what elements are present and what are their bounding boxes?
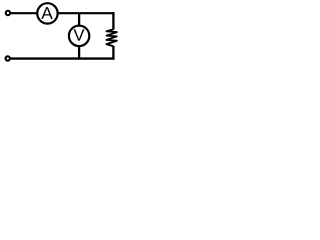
resistor R1 (zigzag) [107,29,117,46]
wire (right side: resistor down to bottom-right corner) [112,46,114,60]
wire (voltmeter bottom stub to bottom rail) [78,45,80,59]
voltmeter U2 (label V) [74,29,85,40]
ammeter U1 (label A) [41,7,52,19]
wire (top rail: left terminal to top-right corner) [11,12,115,14]
ammeter U1 (circle) [37,3,57,23]
wire (junction stub down to voltmeter) [78,13,80,27]
wire (right side: top-right corner down to resistor) [112,12,114,30]
wire (bottom rail: left terminal to bottom-right corner) [11,57,115,59]
voltmeter U2 (circle) [69,26,89,46]
terminal T2 (bottom-left open terminal) [6,56,10,60]
terminal T1 (top-left open terminal) [6,11,10,15]
